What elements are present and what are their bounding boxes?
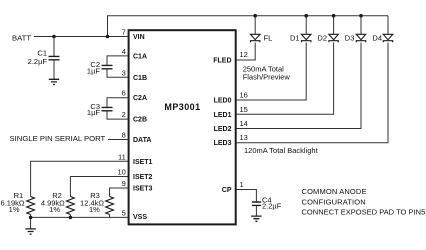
svg-text:ISET2: ISET2 (133, 174, 153, 181)
svg-text:MP3001: MP3001 (164, 102, 200, 112)
svg-text:Flash/Preview: Flash/Preview (243, 73, 291, 82)
svg-text:LED1: LED1 (214, 112, 232, 119)
svg-text:VSS: VSS (133, 214, 147, 221)
svg-text:11: 11 (118, 152, 126, 161)
svg-text:ISET1: ISET1 (133, 159, 153, 166)
svg-text:9: 9 (122, 179, 126, 188)
svg-text:6: 6 (122, 89, 126, 98)
svg-text:LED0: LED0 (214, 98, 232, 105)
svg-text:BATT: BATT (12, 33, 31, 42)
svg-text:DATA: DATA (133, 137, 151, 144)
svg-text:13: 13 (240, 133, 248, 142)
svg-text:16: 16 (240, 91, 248, 100)
svg-text:1%: 1% (49, 205, 60, 214)
svg-text:8: 8 (122, 131, 126, 140)
svg-text:C1A: C1A (133, 54, 147, 61)
svg-text:VIN: VIN (133, 34, 145, 41)
svg-text:C2A: C2A (133, 95, 147, 102)
svg-text:4: 4 (122, 47, 126, 56)
svg-text:15: 15 (240, 105, 248, 114)
svg-text:CONNECT EXPOSED PAD TO PIN5: CONNECT EXPOSED PAD TO PIN5 (302, 207, 426, 216)
svg-text:CONFIGURATION: CONFIGURATION (302, 197, 366, 206)
svg-text:SINGLE PIN SERIAL PORT: SINGLE PIN SERIAL PORT (10, 134, 106, 143)
svg-text:120mA Total Backlight: 120mA Total Backlight (244, 146, 319, 155)
svg-text:C2B: C2B (133, 117, 147, 124)
svg-text:1%: 1% (9, 205, 20, 214)
svg-text:7: 7 (122, 28, 126, 37)
svg-text:2.2µF: 2.2µF (28, 57, 48, 66)
svg-text:10: 10 (117, 168, 125, 177)
svg-text:D4: D4 (372, 33, 382, 42)
svg-text:D2: D2 (317, 33, 327, 42)
svg-text:FL: FL (264, 33, 273, 42)
svg-text:14: 14 (240, 119, 248, 128)
svg-text:D3: D3 (345, 33, 355, 42)
svg-text:D1: D1 (290, 33, 300, 42)
svg-text:5: 5 (122, 208, 126, 217)
svg-text:12: 12 (240, 50, 248, 59)
svg-text:2.2µF: 2.2µF (262, 202, 282, 211)
svg-text:LED2: LED2 (214, 126, 232, 133)
svg-text:1: 1 (240, 180, 244, 189)
svg-text:LED3: LED3 (214, 140, 232, 147)
svg-text:1µF: 1µF (87, 108, 100, 117)
svg-text:COMMON ANODE: COMMON ANODE (302, 187, 367, 196)
svg-text:3: 3 (122, 68, 126, 77)
svg-text:CP: CP (222, 187, 232, 194)
svg-text:1µF: 1µF (87, 66, 100, 75)
svg-text:1%: 1% (89, 205, 100, 214)
svg-text:FLED: FLED (213, 58, 231, 65)
svg-text:C1B: C1B (133, 75, 147, 82)
svg-text:2: 2 (122, 110, 126, 119)
svg-text:ISET3: ISET3 (133, 186, 153, 193)
